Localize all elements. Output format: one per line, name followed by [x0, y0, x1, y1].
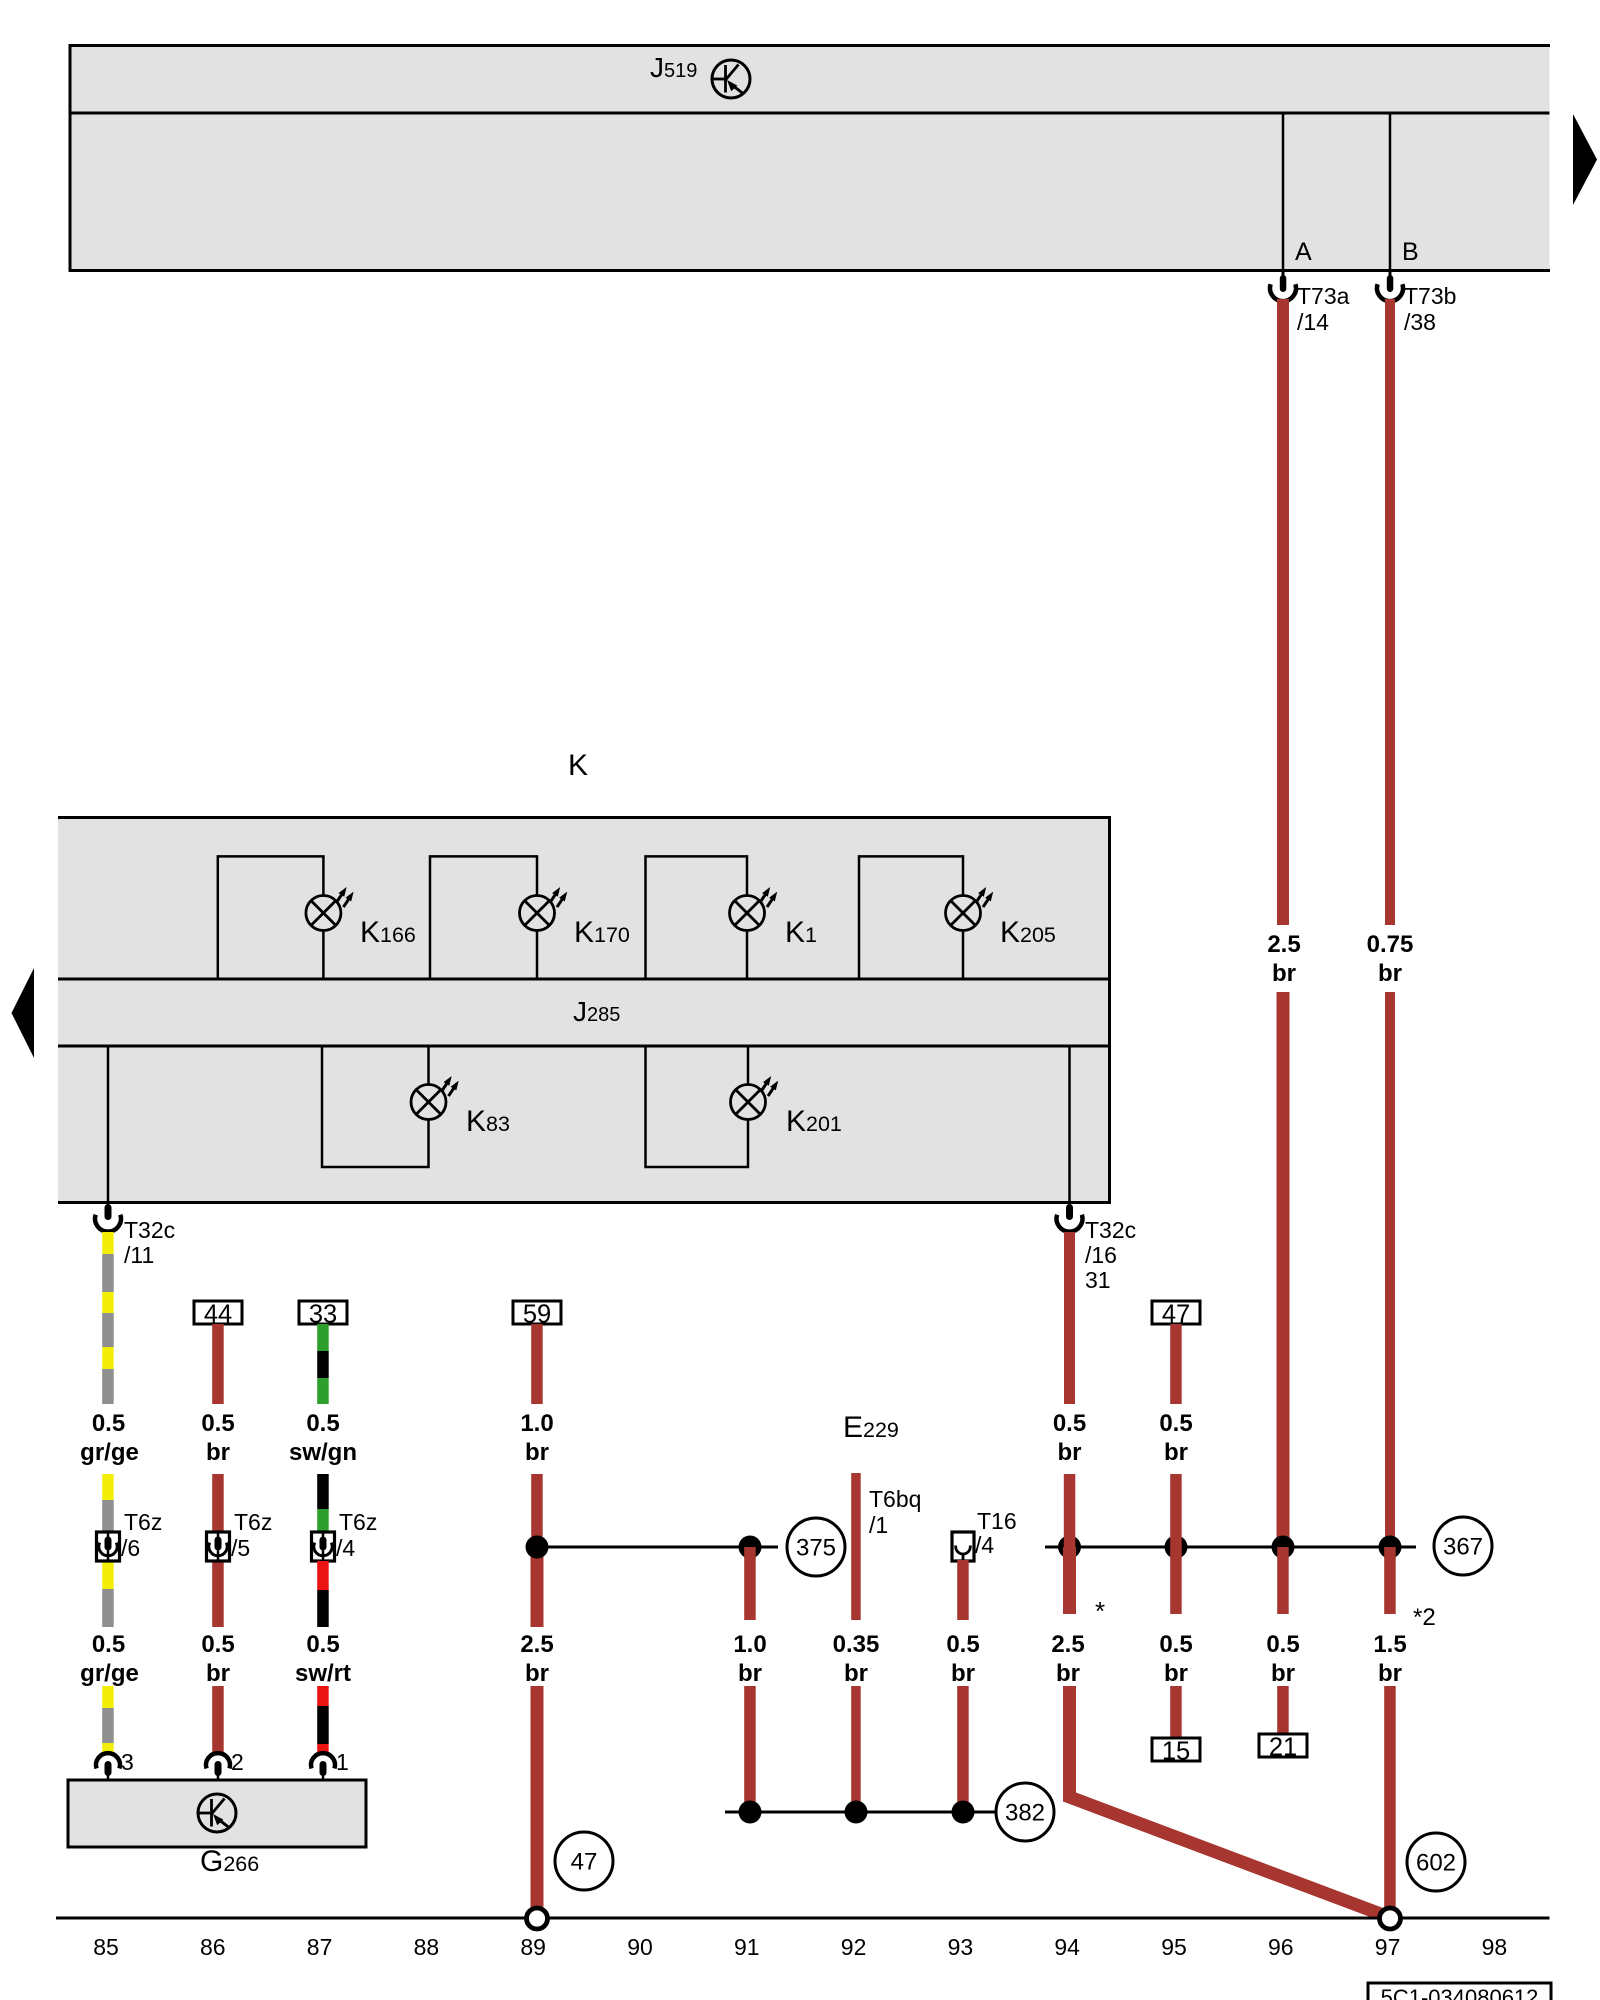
svg-text:5C1-034080612: 5C1-034080612 [1381, 1985, 1539, 2000]
junction 382 line [725, 1811, 996, 1814]
svg-text:1.5: 1.5 [1373, 1631, 1406, 1658]
control unit J285 band upper line [58, 978, 1111, 981]
svg-text:85: 85 [93, 1934, 119, 1960]
diagram code box 5C1-034080612 [1368, 1983, 1551, 2000]
warning lamp K83 [411, 1085, 446, 1120]
wire segment 2 through junction 375 (col 89) [531, 1474, 543, 1547]
svg-text:/14: /14 [1297, 309, 1329, 335]
G266 pin 3 cup [96, 1753, 120, 1768]
svg-text:A: A [1295, 238, 1312, 266]
wire 0.35 br from E229 [851, 1473, 861, 1620]
connector T32c/16 pin [1068, 1204, 1071, 1210]
wire 0.5 br segment 1 (col 95) [1170, 1324, 1182, 1404]
svg-text:1.0: 1.0 [733, 1631, 766, 1658]
svg-text:0.5: 0.5 [1266, 1631, 1299, 1658]
terminal box 44 [194, 1301, 242, 1324]
wire 0.75 br from T73b, segment to junction 367 [1385, 992, 1395, 1547]
wire 0.5 br below T16 [957, 1560, 969, 1620]
svg-text:br: br [1164, 1660, 1188, 1687]
junction dot 382 col 91 [739, 1801, 762, 1824]
svg-text:T6z: T6z [339, 1509, 377, 1535]
wire to pin A inside J519 [1282, 113, 1285, 272]
svg-text:2.5: 2.5 [1267, 931, 1300, 958]
warning lamp K170 [520, 896, 555, 931]
wire 0.5 br segment 3 (col 95) [1170, 1686, 1182, 1738]
svg-text:T6z: T6z [234, 1509, 272, 1535]
wire 1.0 br stub below junction 375 [744, 1547, 756, 1620]
wire 0.5 br segment 3 (col 96) [1277, 1686, 1289, 1734]
svg-text:47: 47 [571, 1849, 598, 1876]
svg-text:br: br [951, 1660, 975, 1687]
ground reference 602 [1407, 1833, 1465, 1891]
svg-text:br: br [206, 1660, 230, 1687]
junction dot col 89 [526, 1536, 549, 1559]
svg-text:/38: /38 [1404, 309, 1436, 335]
svg-text:B: B [1402, 238, 1419, 266]
G266 pin 1 cup [311, 1753, 335, 1768]
wire 0.5 sw/rt segment 3 [317, 1686, 329, 1706]
inline connector T6z/4 [312, 1532, 335, 1561]
svg-text:0.5: 0.5 [306, 1410, 339, 1437]
svg-text:2.5: 2.5 [520, 1631, 553, 1658]
svg-text:31: 31 [1085, 1267, 1111, 1293]
terminal box 59 [513, 1301, 561, 1324]
svg-text:89: 89 [520, 1934, 546, 1960]
wire 1.0 br segment 1 (col 89) [531, 1324, 543, 1404]
terminal box 33 [299, 1301, 347, 1324]
wire loop for lamp K83 [322, 1046, 429, 1167]
svg-text:T6bq: T6bq [869, 1486, 921, 1512]
junction dot col 97 [1379, 1536, 1402, 1559]
G266 function symbol (circle-K) [198, 1794, 236, 1832]
wire 0.75 br from T73b, upper segment [1385, 299, 1395, 925]
wire 1.5 br below junction 367 (col 97) [1384, 1547, 1396, 1614]
svg-text:602: 602 [1416, 1850, 1456, 1877]
wire 1.5 br segment 3 to ground point 602 [1384, 1686, 1396, 1907]
svg-text:0.5: 0.5 [306, 1631, 339, 1658]
svg-text:*2: *2 [1413, 1604, 1436, 1631]
svg-text:0.75: 0.75 [1367, 931, 1414, 958]
svg-text:T32c: T32c [124, 1217, 175, 1243]
svg-text:gr/ge: gr/ge [80, 1439, 139, 1466]
G266 pin 1 pin [320, 1761, 327, 1776]
svg-text:T73a: T73a [1297, 283, 1350, 309]
svg-text:T73b: T73b [1404, 283, 1456, 309]
wire 0.5 gr/ge segment 1 [102, 1232, 114, 1254]
svg-text:0.5: 0.5 [201, 1410, 234, 1437]
J519 box divider line [69, 112, 1550, 115]
junction dot 382 col 92 [845, 1801, 868, 1824]
wire 2.5 br from T73a, upper segment [1277, 299, 1289, 925]
svg-text:br: br [738, 1660, 762, 1687]
svg-text:96: 96 [1268, 1934, 1294, 1960]
junction dot 382 col 93 [952, 1801, 975, 1824]
svg-text:95: 95 [1161, 1934, 1187, 1960]
G266 pin 3 pin [105, 1761, 112, 1776]
svg-text:br: br [1164, 1439, 1188, 1466]
ground point ring 602 [1380, 1908, 1401, 1929]
svg-text:375: 375 [796, 1535, 836, 1562]
connector T16/4 symbol [952, 1532, 974, 1561]
svg-text:E229: E229 [843, 1411, 899, 1444]
wire inside K to T32c/16 [1068, 1046, 1071, 1204]
svg-text:88: 88 [414, 1934, 440, 1960]
wire segment 2 through junction 367 (col 94) [1064, 1474, 1076, 1547]
wire 2.5 br from T73a, segment to junction 367 [1277, 992, 1290, 1547]
wire 0.5 br segment 3 (col 86) [212, 1686, 224, 1752]
junction dot col 91 [739, 1536, 762, 1559]
svg-text:/4: /4 [975, 1532, 994, 1558]
terminal box 15 [1152, 1738, 1200, 1761]
svg-text:90: 90 [627, 1934, 653, 1960]
warning lamp K1 [730, 896, 765, 931]
wire 0.5 gr/ge segment 2 [102, 1474, 114, 1500]
svg-text:0.35: 0.35 [833, 1631, 880, 1658]
warning lamp K201 [731, 1085, 766, 1120]
svg-text:3: 3 [121, 1749, 134, 1775]
off-page arrow left [12, 968, 35, 1058]
warning lamp K166 [306, 896, 341, 931]
svg-text:0.5: 0.5 [1159, 1410, 1192, 1437]
off-page arrow right [1573, 114, 1597, 205]
instrument cluster K box [58, 816, 1111, 1204]
connector T73a pin [1282, 272, 1285, 280]
svg-text:98: 98 [1482, 1934, 1508, 1960]
connector T73b pin [1389, 272, 1392, 280]
svg-text:1.0: 1.0 [520, 1410, 553, 1437]
connector T32c/11 pin [107, 1204, 110, 1210]
svg-text:T32c: T32c [1085, 1217, 1136, 1243]
wire 0.5 sw/gn segment 1 [317, 1324, 329, 1351]
svg-text:97: 97 [1375, 1934, 1401, 1960]
wire segment 2 through junction 367 (col 95) [1170, 1474, 1182, 1614]
svg-text:br: br [1056, 1660, 1080, 1687]
connector T32c/16 cup [1057, 1215, 1083, 1232]
connector T73b cup [1377, 284, 1403, 301]
wire 2.5 br segment 3 to ground point (col 89) [531, 1686, 544, 1907]
wire loop for lamp K205 [859, 856, 963, 979]
junction dot col 94 [1058, 1536, 1081, 1559]
svg-text:15: 15 [1162, 1738, 1190, 1766]
svg-text:br: br [206, 1439, 230, 1466]
svg-text:K: K [568, 749, 588, 782]
svg-text:2.5: 2.5 [1051, 1631, 1084, 1658]
svg-text:br: br [1272, 960, 1296, 987]
wire 0.5 br segment 1 (col 86) [212, 1324, 224, 1404]
svg-text:sw/rt: sw/rt [295, 1660, 351, 1687]
svg-text:br: br [1378, 960, 1402, 987]
svg-text:/4: /4 [336, 1535, 355, 1561]
svg-text:/6: /6 [121, 1535, 140, 1561]
svg-text:T16: T16 [977, 1508, 1017, 1534]
svg-text:sw/gn: sw/gn [289, 1439, 357, 1466]
svg-text:86: 86 [200, 1934, 226, 1960]
wire 0.5 br below junction 367 (col 96) [1277, 1547, 1289, 1614]
svg-text:/1: /1 [869, 1512, 888, 1538]
wire 0.5 sw/rt segment 2 lower [317, 1561, 329, 1590]
G266 pin 2 pin [215, 1761, 222, 1776]
svg-text:G266: G266 [200, 1845, 259, 1878]
wire 0.5 br segment 1 (col 94) [1064, 1232, 1075, 1404]
wire 0.35 br segment to junction 382 [851, 1686, 861, 1812]
junction 367 line [1045, 1546, 1416, 1549]
wire loop for lamp K201 [646, 1046, 749, 1167]
svg-text:0.5: 0.5 [201, 1631, 234, 1658]
wire 0.5 br segment 2 (col 86) [212, 1474, 224, 1532]
svg-text:br: br [1378, 1660, 1402, 1687]
svg-text:*: * [1095, 1596, 1105, 1626]
svg-text:T6z: T6z [124, 1509, 162, 1535]
junction dot col 95 [1165, 1536, 1188, 1559]
G266 pin 2 cup [206, 1753, 230, 1768]
svg-text:367: 367 [1443, 1534, 1483, 1561]
wire loop for lamp K170 [430, 856, 537, 979]
ground reference 382 [996, 1783, 1054, 1841]
terminal box 47 [1152, 1301, 1200, 1324]
control unit J285 band lower line [58, 1045, 1111, 1048]
wire 0.5 br segment to junction 382 [957, 1686, 969, 1812]
svg-text:0.5: 0.5 [946, 1631, 979, 1658]
svg-text:2: 2 [231, 1749, 244, 1775]
svg-text:94: 94 [1054, 1934, 1080, 1960]
svg-text:0.5: 0.5 [92, 1631, 125, 1658]
wire 1.0 br segment to junction 382 [744, 1686, 756, 1812]
wire 0.5 gr/ge segment 3 [102, 1686, 114, 1708]
svg-text:br: br [844, 1660, 868, 1687]
inline connector T6z/5 [207, 1532, 230, 1561]
warning lamp K205 [946, 896, 981, 931]
wire 0.5 sw/gn segment 2 upper [317, 1474, 329, 1509]
svg-text:91: 91 [734, 1934, 760, 1960]
svg-text:br: br [525, 1660, 549, 1687]
svg-text:93: 93 [948, 1934, 974, 1960]
svg-text:21: 21 [1269, 1734, 1297, 1762]
wire loop for lamp K1 [646, 856, 748, 979]
inline connector T6z/6 [97, 1532, 120, 1561]
wire to pin B inside J519 [1389, 113, 1392, 272]
junction dot col 96 [1272, 1536, 1295, 1559]
wire inside K to T32c/11 [107, 1046, 110, 1204]
sender G266 box [68, 1780, 366, 1847]
svg-text:0.5: 0.5 [1159, 1631, 1192, 1658]
svg-text:br: br [525, 1439, 549, 1466]
wire loop for lamp K166 [218, 856, 324, 979]
junction 375 line [537, 1546, 778, 1549]
wire 2.5 br diagonal to ground point 602 [1070, 1686, 1387, 1916]
svg-text:/11: /11 [124, 1242, 154, 1268]
ground reference 367 [1434, 1517, 1492, 1575]
terminal box 21 [1259, 1734, 1307, 1757]
svg-text:1: 1 [336, 1749, 349, 1775]
svg-text:87: 87 [307, 1934, 333, 1960]
svg-text:0.5: 0.5 [92, 1410, 125, 1437]
ground reference 375 [787, 1518, 845, 1576]
svg-text:92: 92 [841, 1934, 867, 1960]
J519 function symbol (circle-K) [712, 60, 750, 98]
svg-text:br: br [1271, 1660, 1295, 1687]
connector T73a cup [1270, 284, 1296, 301]
svg-text:/5: /5 [231, 1535, 250, 1561]
svg-text:0.5: 0.5 [1053, 1410, 1086, 1437]
current track rail [56, 1917, 1550, 1920]
control unit J519 box [69, 44, 1550, 272]
svg-text:/16: /16 [1085, 1242, 1117, 1268]
svg-text:br: br [1058, 1439, 1082, 1466]
ground reference 47 [555, 1832, 613, 1890]
connector T32c/11 cup [95, 1215, 121, 1232]
ground point ring (col 89) [527, 1908, 548, 1929]
svg-text:gr/ge: gr/ge [80, 1660, 139, 1687]
svg-text:382: 382 [1005, 1800, 1045, 1827]
